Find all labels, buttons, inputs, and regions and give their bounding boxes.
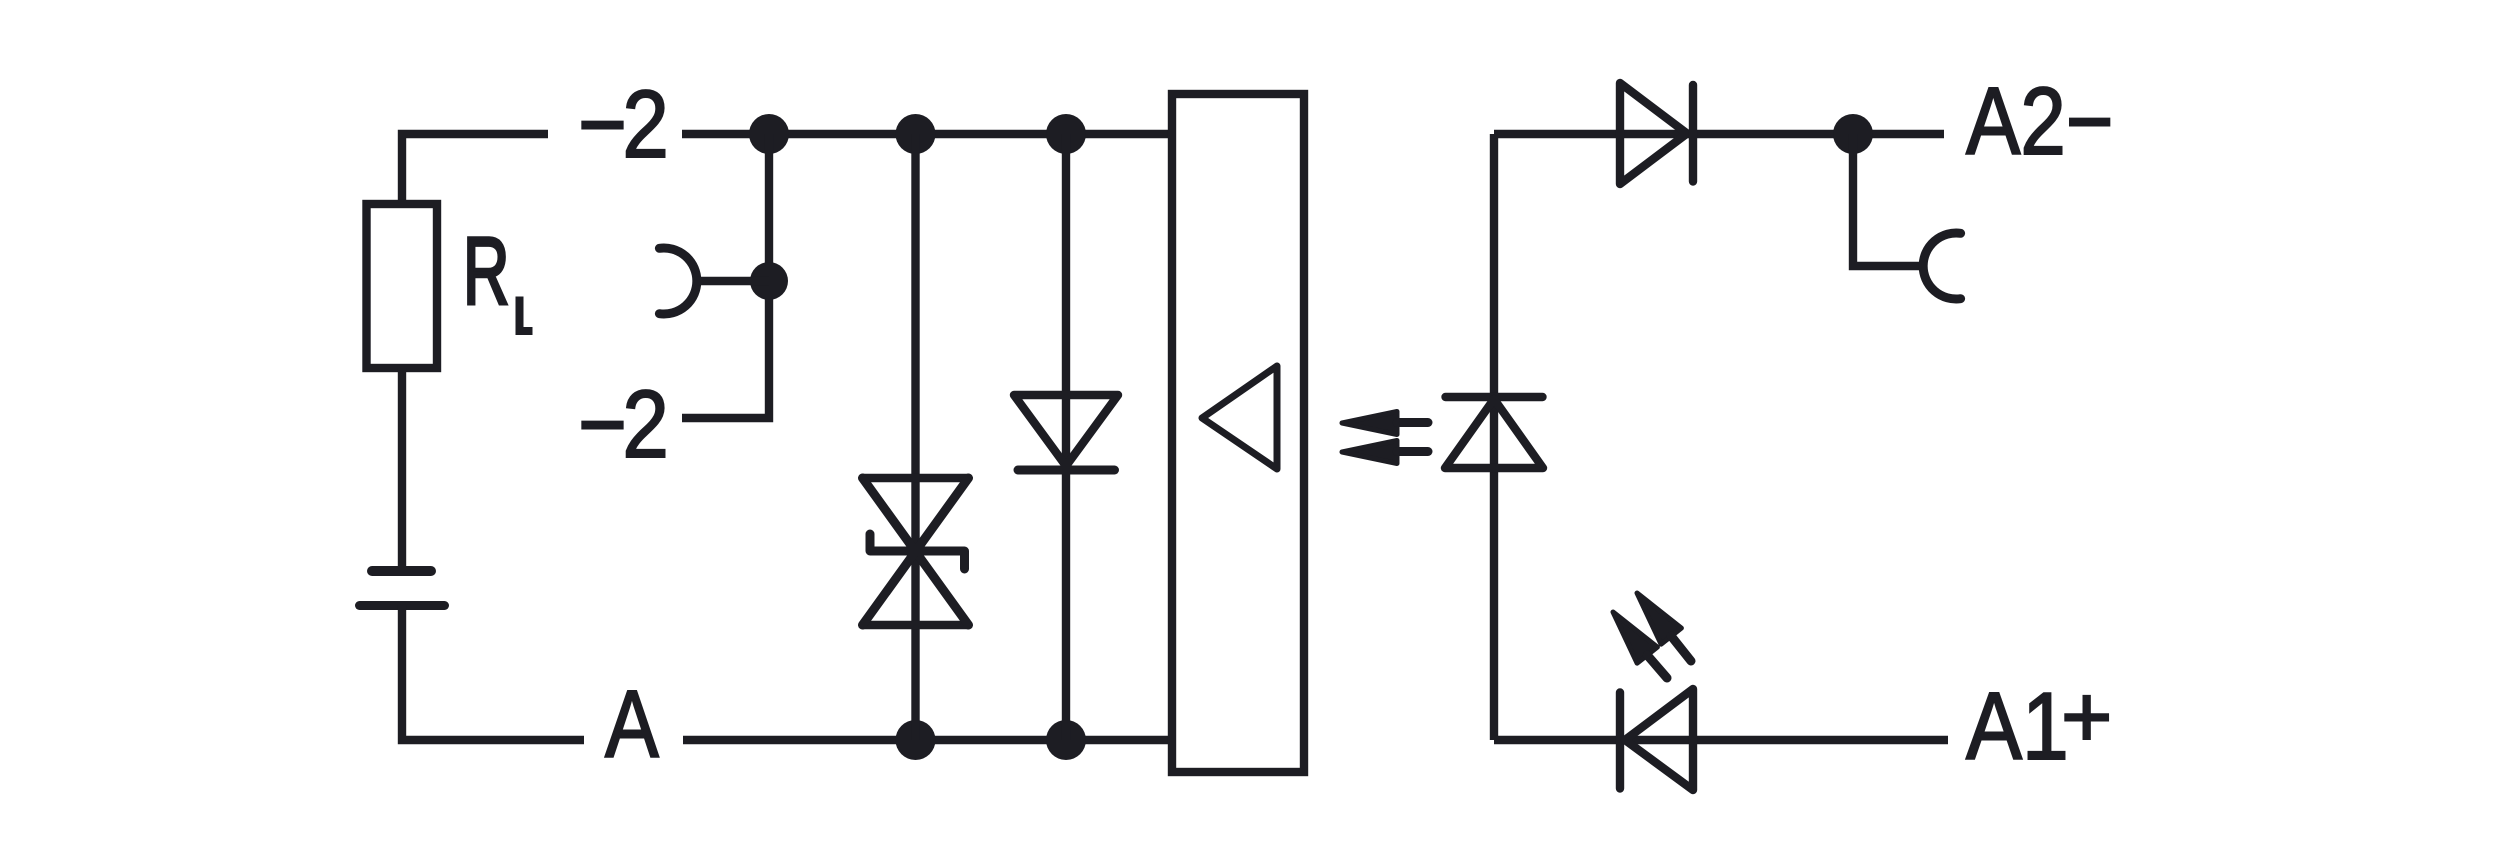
diode D1 cathode bar	[1689, 85, 1697, 182]
optocoupler emitter LED triangle	[1445, 399, 1543, 468]
wire bottom bus from A terminal to output box	[683, 736, 1172, 744]
battery cell short plate	[372, 566, 431, 576]
wire socket stub to junction	[697, 277, 769, 285]
optocoupler light arrow 1	[1342, 412, 1428, 435]
node dot top junction 1	[749, 114, 789, 154]
wire top-left from terminal -2 to resistor	[402, 134, 548, 204]
resistor R_L body	[367, 204, 438, 368]
diode D1 (to A2-) triangle	[1620, 83, 1687, 184]
TVS suppressor diode crossing diagonal 1	[863, 478, 969, 625]
indicator LED emission arrow 2	[1613, 612, 1667, 678]
wire emitter LED branch vertical	[1490, 134, 1498, 740]
test socket clamp (left)	[659, 248, 696, 314]
svg-text:−2: −2	[578, 72, 665, 179]
wire junction down to right test socket	[1853, 134, 1923, 266]
TVS suppressor diode bottom edge	[863, 621, 969, 629]
wire top-right bus through diode D1	[1494, 130, 1944, 138]
svg-text:A: A	[605, 670, 659, 777]
wire top bus through TVS to bottom bus	[911, 134, 919, 740]
battery cell long plate	[360, 601, 445, 610]
wire top bus from -2 terminal to output box	[682, 130, 1172, 138]
indicator LED triangle	[1625, 689, 1693, 790]
wire top bus through zener to bottom bus	[1062, 134, 1070, 740]
TVS zener bar with hooks	[870, 534, 965, 569]
zener diode D2 cathode bar	[1018, 466, 1115, 475]
node dot bottom junction 2	[1046, 720, 1086, 760]
TVS suppressor diode top edge	[863, 474, 969, 482]
indicator LED cathode bar	[1616, 693, 1624, 789]
test socket clamp (right)	[1923, 233, 1960, 299]
wire resistor to battery	[398, 368, 406, 571]
amplifier triangle inside box	[1202, 366, 1277, 469]
wire bottom-right bus through indicator LED	[1494, 736, 1948, 744]
node dot A2- junction	[1833, 114, 1873, 154]
zener diode D2 triangle	[1014, 395, 1118, 466]
svg-text:A2−: A2−	[1966, 67, 2113, 175]
optocoupler emitter LED cathode bar	[1446, 393, 1543, 401]
optocoupler light arrow 2	[1342, 441, 1428, 464]
indicator LED emission arrow 1	[1637, 593, 1691, 661]
node dot test-socket junction	[750, 262, 788, 300]
wire battery to bottom-left corner and terminal A	[402, 605, 584, 740]
node dot top junction 2	[896, 114, 936, 154]
node dot bottom junction 1	[896, 720, 936, 760]
TVS suppressor diode crossing diagonal 2	[863, 478, 969, 625]
svg-text:−2: −2	[578, 372, 665, 479]
wire branch from top bus down to lower -2 terminal	[682, 134, 769, 418]
output amplifier box U1	[1172, 94, 1304, 772]
svg-text:R: R	[463, 218, 509, 325]
svg-text:A1: A1	[1966, 673, 2069, 780]
node dot top junction 3	[1046, 114, 1086, 154]
label R_L	[463, 218, 533, 331]
svg-text:+: +	[2061, 667, 2112, 766]
